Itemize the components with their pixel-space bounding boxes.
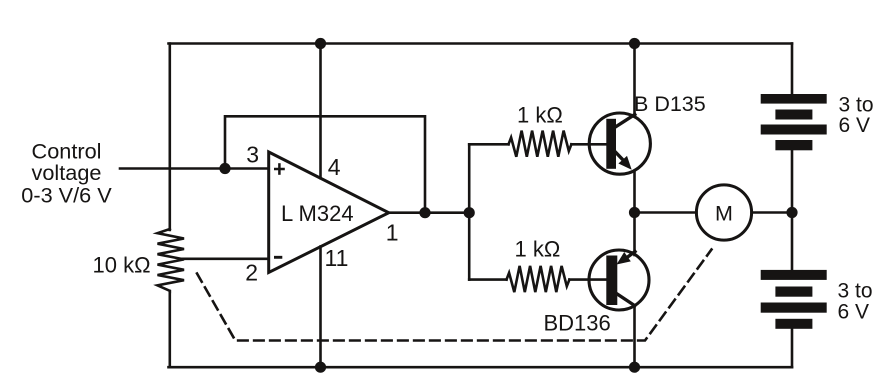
wire dashed mechanical coupling [197,250,712,341]
svg-text:3 to: 3 to [838,279,873,302]
svg-text:11: 11 [325,245,349,271]
svg-text:3 to: 3 to [839,93,874,116]
wire Q1 collector to top rail [633,44,636,116]
svg-text:1 kΩ: 1 kΩ [515,236,561,261]
wire motor node to motor [635,211,697,214]
node junction dot output feedback [419,207,430,218]
wire to resistor R3 [469,278,506,281]
resistor R3 1 kOhm [507,266,570,292]
wire Q1 emitter to motor node [633,172,636,213]
label control voltage input [21,139,112,208]
node junction dot pin11 bottom rail [315,362,326,373]
node junction dot motor node [629,207,640,218]
node junction dot collector top rail [629,38,640,49]
motor M1 [696,185,751,240]
wire control voltage input [120,167,269,170]
wire left frame lower [169,291,172,367]
wire resistor R3 to Q2 base [569,278,606,281]
svg-text:voltage: voltage [32,160,102,185]
node junction dot control/feedback [219,163,230,174]
svg-text:BD136: BD136 [544,310,611,335]
resistor R2 1 kOhm [509,131,572,157]
wire to resistor R2 [469,143,508,146]
svg-text:1: 1 [386,220,399,246]
label op-amp minus input [274,256,282,259]
label op-amp plus input [274,163,285,175]
node junction dot Q2 collector bottom rail [629,362,640,373]
svg-text:2: 2 [245,260,258,286]
transistor Q2 BD136 [589,250,649,310]
wire feedback loop [225,116,425,213]
resistor R1 10 kOhm [158,229,185,292]
wire right frame top segment [791,44,794,96]
svg-text:6 V: 6 V [838,301,870,324]
wire Q2 collector to bottom rail [633,307,636,368]
svg-text:0-3 V/6 V: 0-3 V/6 V [21,182,112,207]
node junction dot pin4 top rail [315,38,326,49]
wire pin 11 ground [319,247,322,368]
wire op-amp output [389,211,469,214]
node junction dot motor right frame [786,207,797,218]
battery B1 [761,94,827,150]
wire resistor R2 to Q1 base [571,143,606,146]
wire bottom rail [169,366,793,369]
svg-text:10 kΩ: 10 kΩ [93,253,151,278]
wire right frame mid segment [791,150,794,270]
wire output branch vertical [468,144,471,279]
wire motor to right frame [752,211,792,214]
wire 10 kOhm wiper to minus input [182,257,269,260]
wire left frame upper [169,44,172,231]
wire pin 4 power [319,44,322,179]
svg-text:L M324: L M324 [281,201,354,226]
svg-text:4: 4 [328,154,341,180]
node junction dot output branch [464,207,475,218]
svg-text:1 kΩ: 1 kΩ [517,103,563,128]
wire Q2 emitter to motor node [633,213,636,256]
svg-text:M: M [715,202,733,226]
svg-text:B D135: B D135 [634,92,706,116]
svg-text:3: 3 [246,141,259,167]
wire top rail [169,42,793,45]
op-amp U1 LM324 [269,152,389,273]
transistor Q1 BD135 [589,113,650,174]
svg-text:6 V: 6 V [839,114,871,137]
battery B2 [761,270,827,329]
wire right frame bottom segment [791,329,794,367]
